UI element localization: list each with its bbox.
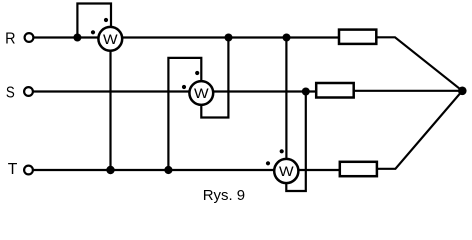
star point node [458, 87, 467, 96]
svg-text:W: W [103, 32, 118, 48]
junction node R/W3 lead [283, 34, 291, 42]
wattmeter W1 [98, 27, 122, 51]
polarity mark W3 voltage [280, 149, 284, 153]
wire S line [33, 90, 316, 92]
polarity mark W2 current [182, 85, 186, 89]
wire bottom load to star point [377, 91, 462, 169]
wire W1 voltage loop (R tap to W1 top) [77, 4, 111, 38]
polarity mark W1 current [91, 30, 95, 34]
terminal T [24, 166, 33, 175]
resistor load phase S [316, 83, 354, 98]
junction node R/W2 lead [225, 34, 233, 42]
junction node T/W2 loop [164, 166, 172, 174]
wire middle load to star point [354, 90, 463, 92]
junction node R/W1 loop [73, 34, 81, 42]
wire W1 bottom lead down to T line [109, 39, 111, 170]
wire W3 bottom lead to S line [286, 92, 306, 192]
junction node S/W3 lead [302, 88, 310, 96]
svg-text:W: W [279, 164, 294, 180]
wire W2 bottom lead to R line [201, 38, 228, 118]
wire T line [33, 169, 340, 171]
wattmeter W3 [274, 159, 298, 183]
polarity mark W2 voltage [195, 71, 199, 75]
wire top load to star point [376, 37, 462, 91]
junction node T/W1 lead [106, 166, 114, 174]
polarity mark W1 voltage [104, 18, 108, 22]
terminal S [24, 87, 33, 96]
wire W2 voltage loop (W2 top to T line) [168, 58, 201, 170]
svg-text:Rys. 9: Rys. 9 [203, 187, 245, 204]
wattmeter W2 [189, 81, 213, 105]
svg-text:W: W [194, 86, 209, 102]
resistor load phase T [340, 162, 377, 176]
wire R line [34, 36, 339, 38]
svg-text:T: T [8, 161, 18, 178]
svg-text:R: R [5, 30, 15, 47]
polarity mark W3 current [266, 161, 270, 165]
svg-text:S: S [6, 84, 15, 101]
resistor load phase R [339, 30, 376, 44]
wire W3 top lead from R line [285, 38, 287, 172]
terminal R [25, 33, 34, 42]
